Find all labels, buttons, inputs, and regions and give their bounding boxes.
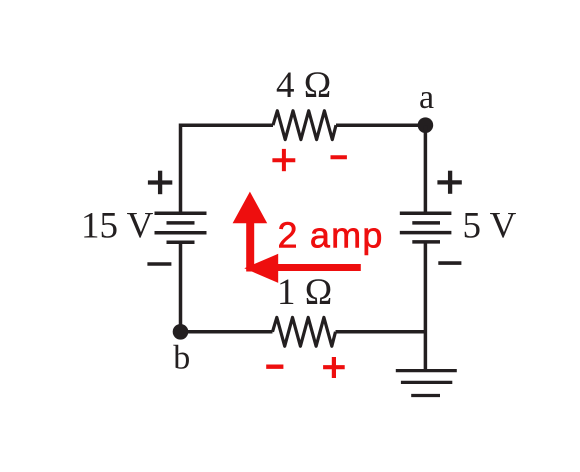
node b dot [173, 324, 189, 340]
wire right lower from 5V battery through bottom wire to ground [424, 242, 428, 371]
minus mark of 5V battery [438, 261, 461, 265]
plus mark of 15V battery [148, 171, 172, 195]
resistor 1ohm [273, 317, 336, 346]
current arrow left (2 amp) [244, 254, 360, 283]
svg-text:4 Ω: 4 Ω [276, 65, 331, 106]
wire bottom from node b to ground stem [181, 330, 426, 334]
svg-text:2 amp: 2 amp [278, 215, 384, 256]
wire left lower from 15V battery down to node b [179, 242, 183, 331]
red polarity minus for 1 ohm resistor [266, 365, 283, 369]
battery 5V plates [400, 213, 452, 242]
red polarity plus for 4 ohm resistor [272, 149, 295, 171]
svg-text:15 V: 15 V [81, 206, 154, 247]
svg-text:a: a [419, 79, 434, 116]
svg-text:1 Ω: 1 Ω [277, 272, 332, 313]
plus mark of 5V battery [437, 171, 461, 194]
ground [396, 371, 457, 396]
red polarity plus for 1 ohm resistor [323, 357, 345, 378]
wire left upper from top wire down to 15V battery [179, 124, 183, 214]
node a dot [418, 117, 434, 133]
wire right upper from node a down to 5V battery [424, 125, 428, 213]
svg-text:b: b [173, 340, 190, 377]
current arrow up (2 amp) [233, 192, 268, 272]
battery 15V plates [155, 213, 207, 242]
wire top from node above 15V battery to node a [181, 123, 426, 127]
minus mark of 15V battery [147, 262, 171, 266]
red polarity minus for 4 ohm resistor [331, 155, 347, 159]
resistor R 4ohm [273, 111, 336, 140]
svg-text:5 V: 5 V [463, 205, 517, 246]
